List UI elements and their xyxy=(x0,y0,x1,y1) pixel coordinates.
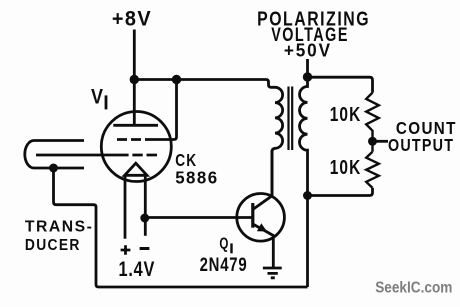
svg-text:Q: Q xyxy=(219,236,228,253)
svg-text:+8V: +8V xyxy=(112,7,152,30)
svg-text:10K: 10K xyxy=(330,157,362,179)
svg-text:1.4V: 1.4V xyxy=(119,258,156,281)
svg-text:5886: 5886 xyxy=(175,167,218,187)
svg-text:+50V: +50V xyxy=(284,40,332,61)
svg-text:TRANS-: TRANS- xyxy=(25,219,94,236)
svg-text:DUCER: DUCER xyxy=(25,237,81,254)
svg-text:10K: 10K xyxy=(330,104,362,126)
svg-text:V: V xyxy=(91,85,104,109)
svg-text:OUTPUT: OUTPUT xyxy=(388,135,454,155)
svg-text:SeekIC.com: SeekIC.com xyxy=(375,280,452,297)
svg-text:2N479: 2N479 xyxy=(200,254,248,276)
